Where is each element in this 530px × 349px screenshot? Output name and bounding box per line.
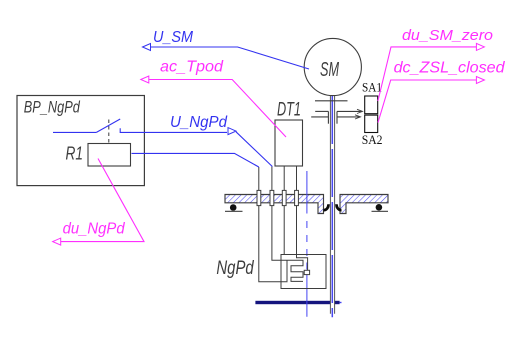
svg-text:DT1: DT1 [277, 99, 301, 120]
svg-text:ac_Tpod: ac_Tpod [160, 59, 224, 76]
svg-text:SM: SM [320, 59, 339, 81]
svg-text:du_NgPd: du_NgPd [63, 221, 126, 238]
svg-text:BP_NgPd: BP_NgPd [24, 98, 80, 117]
svg-text:SA1: SA1 [362, 79, 382, 94]
svg-text:dc_ZSL_closed: dc_ZSL_closed [394, 59, 506, 76]
svg-text:SA2: SA2 [362, 132, 383, 147]
svg-text:du_SM_zero: du_SM_zero [402, 27, 493, 44]
svg-text:U_NgPd: U_NgPd [170, 114, 228, 131]
svg-text:NgPd: NgPd [216, 258, 254, 279]
svg-text:R1: R1 [66, 143, 84, 163]
svg-text:U_SM: U_SM [153, 29, 194, 46]
